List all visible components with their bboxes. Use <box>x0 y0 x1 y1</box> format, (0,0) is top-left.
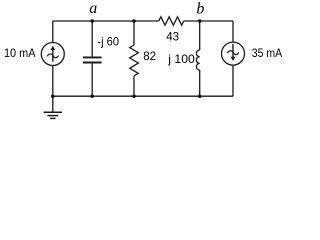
capacitor C plates <box>83 57 102 62</box>
junction dot top of 82 <box>132 19 136 23</box>
svg-text:b: b <box>196 1 204 18</box>
current source I2 arrow and tilde (rotated copy) <box>227 44 238 61</box>
current source I1 arrow and tilde <box>47 46 58 62</box>
svg-text:j 100: j 100 <box>167 52 195 66</box>
wire bottom rail <box>53 95 233 97</box>
junction dot bottom of inductor <box>198 94 202 98</box>
inductor coil <box>196 50 199 70</box>
wire left branch top <box>52 21 54 43</box>
resistor 82 zigzag <box>130 45 139 76</box>
capacitor C bottom lead <box>91 63 93 96</box>
svg-text:10 mA: 10 mA <box>4 46 36 60</box>
wire top rail left segment <box>53 20 159 22</box>
resistor 82 bottom lead <box>133 76 135 96</box>
junction dot ground <box>51 94 55 98</box>
junction dot bottom of 82 <box>132 94 136 98</box>
node a junction dot <box>90 19 94 23</box>
wire right branch top <box>232 21 234 42</box>
inductor top lead <box>199 21 201 50</box>
capacitor C top lead <box>91 21 93 57</box>
wire right branch bottom <box>232 65 234 96</box>
wire left branch bottom <box>52 65 54 96</box>
svg-text:-j 60: -j 60 <box>97 35 119 49</box>
inductor bottom lead <box>199 70 201 96</box>
svg-text:43: 43 <box>166 30 179 44</box>
current source I2 circle <box>222 42 245 65</box>
current source I1 circle <box>41 43 64 66</box>
junction dot bottom of capacitor <box>90 94 94 98</box>
resistor 43 <box>159 17 184 25</box>
resistor 82 top lead <box>133 21 135 45</box>
svg-text:35 mA: 35 mA <box>252 46 282 60</box>
wire top rail right segment <box>184 20 233 22</box>
ground <box>44 96 62 118</box>
node b junction dot <box>198 19 202 23</box>
svg-text:a: a <box>89 0 97 17</box>
svg-text:82: 82 <box>143 49 156 63</box>
